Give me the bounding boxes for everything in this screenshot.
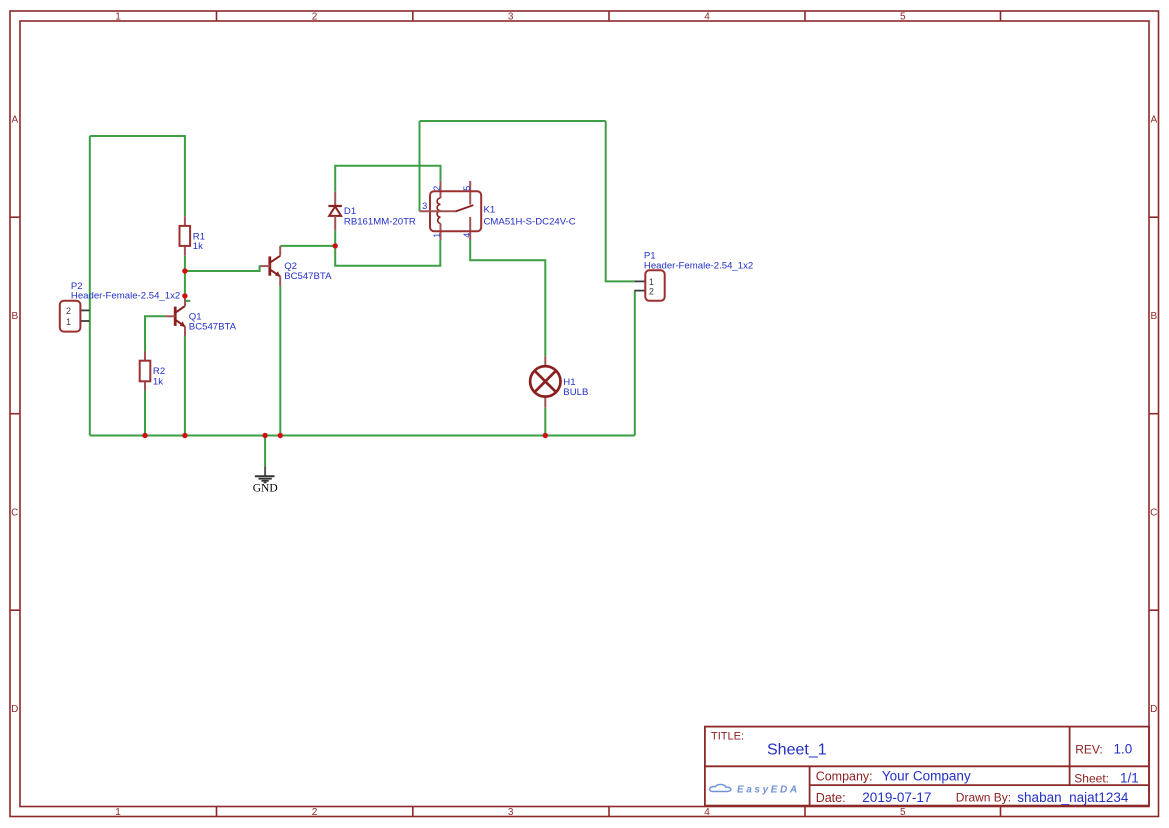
svg-text:5: 5 bbox=[462, 186, 472, 191]
svg-text:1k: 1k bbox=[153, 376, 163, 387]
svg-text:4: 4 bbox=[704, 807, 710, 818]
wire: left supply rail vertical bbox=[89, 136, 91, 436]
svg-text:D: D bbox=[11, 704, 18, 715]
svg-text:RB161MM-20TR: RB161MM-20TR bbox=[344, 217, 416, 228]
svg-text:4: 4 bbox=[704, 12, 710, 23]
svg-text:TITLE:: TITLE: bbox=[711, 731, 744, 743]
svg-text:4: 4 bbox=[462, 233, 472, 238]
wire: R1 bottom to Q1 collector node bbox=[184, 256, 186, 296]
svg-text:GND: GND bbox=[253, 483, 278, 495]
junction R2 at ground bus bbox=[142, 433, 147, 438]
svg-text:Header-Female-2.54_1x2: Header-Female-2.54_1x2 bbox=[644, 260, 753, 271]
svg-text:B: B bbox=[1150, 311, 1157, 322]
wire: Q1 base to R2 branch bbox=[145, 316, 165, 351]
svg-text:Header-Female-2.54_1x2: Header-Female-2.54_1x2 bbox=[71, 291, 180, 302]
svg-text:CMA51H-S-DC24V-C: CMA51H-S-DC24V-C bbox=[484, 217, 576, 228]
svg-text:3: 3 bbox=[422, 201, 427, 211]
title block bbox=[705, 727, 1149, 806]
diode D1 RB161MM-20TR bbox=[328, 192, 416, 231]
svg-text:2019-07-17: 2019-07-17 bbox=[862, 790, 931, 805]
svg-text:C: C bbox=[1150, 508, 1157, 519]
svg-text:2: 2 bbox=[312, 807, 318, 818]
wire: D1 anode vertical bbox=[334, 230, 336, 246]
svg-text:1: 1 bbox=[66, 317, 71, 327]
wire: GND stub bbox=[264, 436, 266, 467]
svg-text:1k: 1k bbox=[193, 241, 203, 252]
svg-text:REV:: REV: bbox=[1075, 743, 1103, 757]
svg-text:A: A bbox=[1150, 115, 1157, 126]
wire: relay pin 4 to bulb H1 bbox=[470, 240, 545, 356]
wire: V+ top-left horizontal bbox=[90, 135, 185, 137]
svg-text:Sheet_1: Sheet_1 bbox=[767, 742, 827, 759]
svg-text:A: A bbox=[11, 115, 18, 126]
svg-text:3: 3 bbox=[508, 807, 514, 818]
svg-text:BULB: BULB bbox=[563, 387, 588, 398]
EasyEDA logo bbox=[710, 784, 800, 795]
svg-text:2: 2 bbox=[66, 306, 71, 316]
svg-text:2: 2 bbox=[312, 12, 318, 23]
svg-text:D1: D1 bbox=[344, 206, 356, 217]
svg-text:K1: K1 bbox=[484, 205, 496, 216]
wire: Q2 collector to D1 anode node bbox=[280, 245, 335, 247]
wire: top horizontal V+ loop bbox=[420, 120, 606, 122]
wire: D1 cathode up and over to relay pin 2 bbox=[335, 166, 440, 192]
junction at R1 bottom / Q2 base bbox=[182, 268, 187, 273]
wire: right rail down to P1 pin 1 bbox=[606, 121, 635, 281]
svg-text:Company:: Company: bbox=[816, 770, 873, 784]
junction GND stub at ground bus bbox=[262, 433, 267, 438]
svg-text:1: 1 bbox=[432, 233, 442, 238]
junction Q1 emitter at ground bus bbox=[182, 433, 187, 438]
resistor R2 bbox=[140, 351, 165, 390]
svg-text:5: 5 bbox=[900, 807, 906, 818]
connector P1 Header-Female-2.54_1x2 bbox=[634, 251, 753, 301]
svg-text:shaban_najat1234: shaban_najat1234 bbox=[1017, 790, 1129, 805]
junction at Q1 collector node bbox=[182, 293, 187, 298]
svg-text:BC547BTA: BC547BTA bbox=[189, 322, 237, 333]
bulb H1 bbox=[530, 356, 588, 407]
svg-text:1: 1 bbox=[115, 12, 121, 23]
svg-text:1: 1 bbox=[649, 277, 654, 287]
wire: bulb bottom to ground bus bbox=[544, 408, 546, 436]
transistor Q1 BC547BTA bbox=[165, 296, 236, 336]
svg-text:C: C bbox=[11, 508, 18, 519]
wire: top loop to relay pin 3 bbox=[419, 121, 421, 211]
wire: P1 pin 2 down to ground bus bbox=[634, 291, 636, 436]
transistor Q2 BC547BTA bbox=[261, 246, 332, 286]
junction at Q2 collector / D1 node bbox=[333, 243, 338, 248]
connector P2 Header-Female-2.54_1x2 bbox=[60, 281, 180, 332]
resistor R1 bbox=[180, 216, 206, 256]
junction Q2 emitter at ground bus bbox=[278, 433, 283, 438]
svg-text:Sheet:: Sheet: bbox=[1074, 772, 1109, 786]
svg-text:B: B bbox=[11, 311, 18, 322]
svg-text:2: 2 bbox=[432, 186, 442, 191]
wire: ground bus horizontal bbox=[90, 435, 635, 437]
wire: node to Q2 base (with jog) bbox=[185, 266, 261, 271]
svg-text:1: 1 bbox=[115, 807, 121, 818]
junction bulb at ground bus bbox=[543, 433, 548, 438]
wire: Q2 emitter to ground bus bbox=[279, 286, 281, 435]
svg-text:EasyEDA: EasyEDA bbox=[737, 785, 800, 796]
svg-text:Date:: Date: bbox=[816, 791, 846, 805]
svg-text:Drawn By:: Drawn By: bbox=[956, 791, 1011, 805]
wire: Q1 emitter to ground bus bbox=[184, 336, 186, 435]
svg-text:BC547BTA: BC547BTA bbox=[284, 271, 332, 282]
wire: stub right of Q1 collector node bbox=[185, 300, 190, 302]
wire: R1 top feed bbox=[184, 135, 186, 216]
svg-text:2: 2 bbox=[649, 287, 654, 297]
svg-text:1/1: 1/1 bbox=[1120, 771, 1139, 786]
wire: node down to relay pin 1 bbox=[335, 240, 440, 266]
ground symbol GND bbox=[253, 466, 278, 494]
wire: R2 bottom to ground bus bbox=[144, 390, 146, 435]
svg-text:5: 5 bbox=[900, 12, 906, 23]
svg-text:Your Company: Your Company bbox=[882, 769, 971, 784]
svg-text:1.0: 1.0 bbox=[1114, 742, 1133, 757]
relay K1 CMA51H-S-DC24V-C bbox=[420, 181, 576, 240]
svg-text:D: D bbox=[1150, 704, 1157, 715]
svg-text:3: 3 bbox=[508, 12, 514, 23]
